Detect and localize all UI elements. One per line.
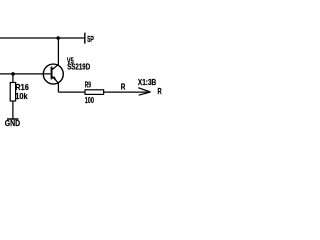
svg-text:100: 100 bbox=[85, 95, 94, 105]
svg-text:R: R bbox=[158, 86, 162, 96]
svg-text:5P: 5P bbox=[87, 34, 94, 44]
svg-text:R9: R9 bbox=[85, 80, 91, 90]
svg-text:SS219D: SS219D bbox=[67, 62, 90, 72]
svg-text:10k: 10k bbox=[15, 91, 28, 101]
svg-text:X1:3B: X1:3B bbox=[138, 77, 156, 87]
svg-text:GND: GND bbox=[5, 119, 20, 128]
svg-text:R: R bbox=[121, 82, 126, 92]
